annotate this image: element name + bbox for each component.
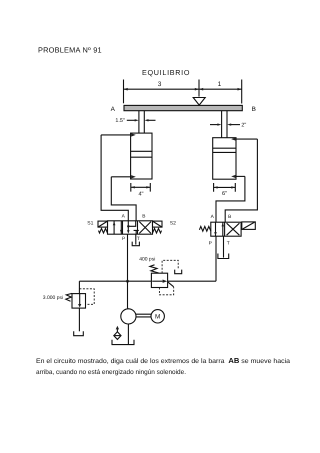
wire cylinder C1 top to valve V1 port A xyxy=(101,135,128,221)
tank under valve V1 xyxy=(132,242,139,246)
motor shaft xyxy=(136,314,151,317)
dimension extension tick middle xyxy=(198,80,200,97)
relief valve 3000 psi spring xyxy=(66,293,72,301)
rod of cylinder C2 xyxy=(222,111,227,149)
wire relief valve 3000 psi to tank xyxy=(78,308,80,331)
junction node xyxy=(126,280,129,283)
filter arrow xyxy=(116,329,118,332)
svg-text:1.5": 1.5" xyxy=(115,118,124,124)
svg-text:En el circuito mostrado, diga: En el circuito mostrado, diga cuál de lo… xyxy=(36,356,290,365)
svg-text:arriba, cuando no está energiz: arriba, cuando no está energizado ningún… xyxy=(36,369,186,376)
cylinder C1 body xyxy=(131,133,152,179)
spring left of valve V2 xyxy=(199,226,210,231)
wire cylinder C2 bottom to valve V2 port A xyxy=(216,176,245,222)
svg-text:B: B xyxy=(252,106,256,113)
valve V1 center position xyxy=(128,221,135,227)
tank under relief valve 3000 psi xyxy=(74,331,84,335)
wire junction to pump xyxy=(127,281,129,308)
pilot line dashed xyxy=(79,289,94,305)
relief valve 3000 psi body xyxy=(72,294,86,309)
solenoid of valve V2 xyxy=(242,222,256,230)
bar AB xyxy=(124,105,242,110)
wire cylinder C2 top to valve V2 port B xyxy=(225,139,257,222)
stroke dimension 4 xyxy=(131,183,151,192)
wire valve V2 P down xyxy=(215,236,217,281)
main pressure line left xyxy=(79,280,151,282)
svg-text:P: P xyxy=(209,241,212,247)
svg-text:B: B xyxy=(228,214,231,220)
svg-text:1: 1 xyxy=(218,81,222,88)
pump outlet arrow xyxy=(126,307,130,311)
cylinder C2 piston xyxy=(213,148,236,152)
valve V1 position 3 crossed paths xyxy=(139,222,151,234)
svg-text:T: T xyxy=(227,241,230,247)
fulcrum xyxy=(193,98,205,106)
spring right of valve V1 xyxy=(153,229,162,234)
tank under valve V2 xyxy=(218,254,229,259)
dimension line 3 xyxy=(124,88,200,90)
dimension extension tick right xyxy=(241,80,243,104)
cylinder C1 bottom port arrow xyxy=(111,176,130,178)
relief valve 400 psi spring xyxy=(150,265,159,273)
valve V1 body xyxy=(108,221,153,234)
cylinder C1 piston xyxy=(131,151,152,157)
svg-text:A: A xyxy=(211,214,215,220)
cylinder C2 bottom port arrow xyxy=(236,175,245,177)
svg-text:A: A xyxy=(122,214,126,220)
motor M1 xyxy=(151,310,164,323)
relief valve 400 psi body xyxy=(151,273,167,287)
rod of cylinder C1 xyxy=(139,111,144,152)
reservoir tank xyxy=(112,340,134,345)
valve V1 position 1 flow paths xyxy=(114,221,121,234)
pilot line dashed bottom loop xyxy=(159,287,173,295)
svg-text:S1: S1 xyxy=(87,221,93,227)
svg-text:T: T xyxy=(137,236,140,242)
dimension extension tick left xyxy=(123,80,125,104)
svg-text:4": 4" xyxy=(138,191,143,197)
svg-text:3.000 psi: 3.000 psi xyxy=(43,295,63,301)
main pressure line right xyxy=(168,280,216,282)
svg-text:P: P xyxy=(122,236,125,242)
svg-text:EQUILIBRIO: EQUILIBRIO xyxy=(142,68,190,77)
valve V2 body xyxy=(211,222,241,236)
tank for relief valve 400 psi xyxy=(175,270,182,274)
wire main line to relief valve 3000 psi xyxy=(78,281,80,293)
valve V2 position 2 crossed paths xyxy=(227,223,240,235)
pump suction line xyxy=(127,324,129,344)
filter strainer xyxy=(114,332,121,340)
pilot drain dashed to tank xyxy=(162,260,178,273)
svg-text:B: B xyxy=(142,214,145,220)
wire cylinder C1 bottom to valve V1 port B xyxy=(111,177,136,221)
dimension line 1 xyxy=(199,88,242,90)
wire valve V1 T to tank xyxy=(135,234,137,244)
wire valve V1 P to pump junction xyxy=(127,234,129,281)
stroke dimension 6 xyxy=(214,183,236,192)
cylinder C2 top port arrow xyxy=(236,138,257,140)
wire valve V2 T to tank xyxy=(223,236,225,257)
solenoid S2 xyxy=(153,221,163,227)
solenoid S1 xyxy=(98,221,108,227)
cylinder C2 body xyxy=(213,138,236,180)
svg-text:6": 6" xyxy=(222,191,227,197)
svg-text:400 psi: 400 psi xyxy=(139,256,155,262)
svg-text:2": 2" xyxy=(241,123,246,129)
svg-text:3: 3 xyxy=(158,81,162,88)
spring left of valve V1 xyxy=(99,229,108,234)
svg-text:A: A xyxy=(111,106,116,113)
pump P1 xyxy=(121,309,136,324)
svg-text:PROBLEMA Nº 91: PROBLEMA Nº 91 xyxy=(38,46,102,55)
cylinder C1 top port arrow xyxy=(101,134,131,136)
svg-text:M: M xyxy=(155,314,160,321)
svg-text:S2: S2 xyxy=(170,221,176,227)
valve V2 position 1 flow paths xyxy=(216,222,223,236)
